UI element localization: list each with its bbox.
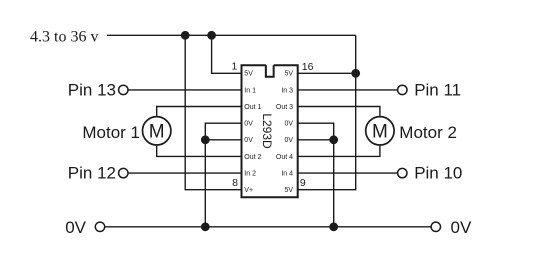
svg-text:Out 3: Out 3 [276,104,293,111]
terminal Pin 10 [398,168,407,177]
svg-text:Pin 10: Pin 10 [414,164,462,183]
motor M2 [366,117,394,145]
wire: Out 1 to motor 1 top [157,107,242,116]
wire: 0V bottom rail [105,226,430,228]
svg-text:M: M [372,122,388,143]
terminal 0V right [431,222,440,231]
svg-text:9: 9 [300,177,306,189]
junction: right 0V tie [329,135,338,144]
svg-text:0V: 0V [451,218,472,237]
svg-text:0V: 0V [65,218,86,237]
wire: pin 16 to right vertical [298,72,356,74]
wire: right 0V pins to ground rail [298,123,334,227]
wire: In 4 to Pin 10 terminal [298,172,397,174]
svg-text:Pin 13: Pin 13 [68,80,116,99]
junction: ground rail right [329,222,338,231]
junction: ground rail left [201,222,210,231]
wire: In 3 to Pin 11 terminal [298,89,397,91]
svg-text:Out 2: Out 2 [244,154,261,161]
motor M1 [143,117,171,145]
svg-text:V+: V+ [244,187,253,194]
svg-text:M: M [149,122,165,143]
wire: left 0V pin 5 stub [205,139,241,141]
svg-text:4.3 to 36 v: 4.3 to 36 v [30,29,98,46]
svg-text:0V: 0V [284,121,293,128]
IC notch [266,65,274,77]
svg-text:Motor 1: Motor 1 [82,123,140,142]
junction: rail / V+ drop [181,31,190,40]
terminal Pin 12 [119,168,128,177]
terminal Pin 11 [398,85,407,94]
svg-text:0V: 0V [244,121,253,128]
svg-text:1: 1 [231,61,237,73]
svg-text:Pin 12: Pin 12 [68,164,116,183]
terminal Pin 13 [119,85,128,94]
wire: Out 3 to motor 2 top [298,107,380,116]
IC U1 L293D body [242,65,298,197]
svg-text:In 1: In 1 [244,87,256,94]
svg-text:In 3: In 3 [281,87,293,94]
svg-text:Out 1: Out 1 [244,104,261,111]
wire: right 0V pin stub [298,139,334,141]
svg-text:Motor 2: Motor 2 [399,123,457,142]
svg-text:Pin 11: Pin 11 [414,81,461,100]
wire: rail to V+ pin 8 [185,35,241,189]
svg-text:5V: 5V [244,71,253,78]
wire: Pin 13 terminal to In 1 [129,89,242,91]
svg-text:16: 16 [302,61,314,73]
svg-text:0V: 0V [244,137,253,144]
junction: rail / pin1 drop [207,31,216,40]
svg-text:In 2: In 2 [244,171,256,178]
wire: rail to pin 1 [212,35,242,73]
wire: Out 2 to motor 1 bottom [157,146,242,157]
wire: rail down right side to pin 9 [298,35,356,189]
svg-text:Out 4: Out 4 [276,154,293,161]
junction: pin16 / right vertical [351,69,360,78]
svg-text:In 4: In 4 [281,171,293,178]
svg-text:8: 8 [232,177,238,189]
svg-text:5V: 5V [284,187,293,194]
wire: Pin 12 terminal to In 2 [129,172,242,174]
wire: Out 4 to motor 2 bottom [298,146,380,157]
svg-text:0V: 0V [284,137,293,144]
junction: left 0V tie [201,135,210,144]
svg-text:L293D: L293D [260,113,274,149]
svg-text:5V: 5V [284,71,293,78]
wire: left 0V pins to ground rail [205,123,241,227]
terminal 0V left [95,222,104,231]
wire: +V top rail [107,34,356,36]
